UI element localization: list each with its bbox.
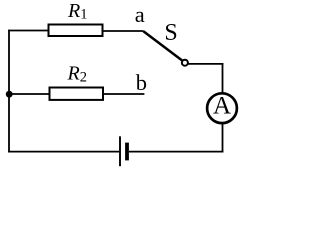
junction node (solder dot on left wire) [6,91,13,98]
svg-text:S: S [164,20,177,46]
wire: left vertical (top-left corner down to bottom-left corner) [8,30,10,153]
switch S pivot (open circle) [182,60,188,66]
wire: R2 right terminal to open terminal b [104,93,144,95]
wire: switch pivot to top-right corner [188,63,223,65]
wire: bottom-right corner to battery positive plate [129,151,223,153]
resistor R1 [49,25,103,37]
wire: top-left corner to R1 left terminal [8,30,48,32]
ammeter A (circle) [207,93,237,123]
switch S blade (from contact a down to pivot) [143,31,182,60]
wire: junction to R2 left terminal [9,93,50,95]
battery cell: short thick plate (negative) [125,143,129,161]
svg-text:A: A [213,93,231,120]
wire: battery to bottom-left corner [8,151,119,153]
svg-text:a: a [135,2,145,27]
battery cell: long thin plate (positive) [119,136,121,166]
svg-text:b: b [136,70,147,95]
wire: R1 right terminal to switch contact a [104,30,144,32]
resistor R2 [50,88,104,100]
wire: ammeter bottom terminal to bottom-right corner [222,123,224,153]
wire: top-right corner down to ammeter top terminal [222,63,224,94]
